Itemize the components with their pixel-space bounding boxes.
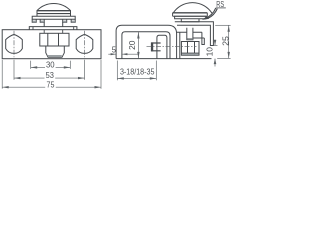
svg-text:25: 25 <box>221 36 230 46</box>
svg-text:5: 5 <box>112 46 117 55</box>
svg-text:3-18/18-35: 3-18/18-35 <box>120 68 155 77</box>
svg-text:75: 75 <box>47 81 55 90</box>
svg-text:53: 53 <box>46 71 55 80</box>
svg-text:20: 20 <box>128 40 137 50</box>
svg-text:10: 10 <box>206 46 215 56</box>
svg-text:30: 30 <box>46 61 55 70</box>
